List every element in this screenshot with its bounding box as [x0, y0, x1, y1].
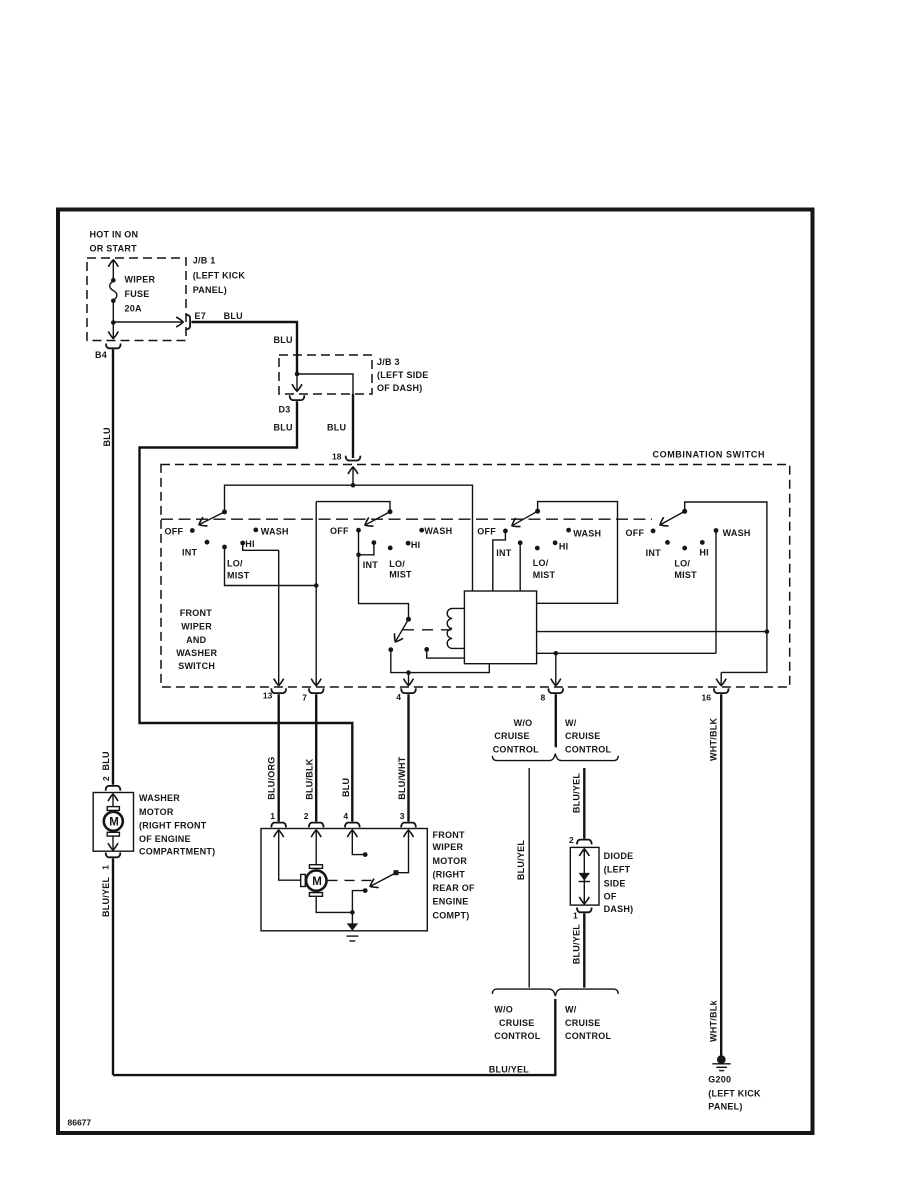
intermittent switch contact [388, 647, 393, 652]
svg-text:SWITCH: SWITCH [178, 661, 215, 671]
svg-text:DIODE: DIODE [604, 851, 634, 861]
svg-text:HI: HI [245, 539, 255, 549]
washer motor M [107, 807, 119, 811]
switch 4 HI contact [700, 540, 705, 545]
connector diode pin 2 [577, 840, 592, 845]
svg-text:CONTROL: CONTROL [565, 744, 611, 754]
svg-text:(LEFT KICK: (LEFT KICK [708, 1089, 761, 1099]
connector E7 [185, 315, 190, 330]
wire hot feed into J/B1 (arrow up) [112, 260, 114, 280]
wire junction to pin 8 (arrow) [555, 653, 557, 686]
wire BLU/YEL diode pin1 down [583, 913, 585, 987]
svg-text:WHT/BLK: WHT/BLK [709, 718, 719, 761]
wire BLU from D3 down-left-down-right to wiper motor pin 4 [140, 401, 353, 821]
diode box [570, 847, 599, 905]
svg-text:FRONT: FRONT [433, 830, 465, 840]
svg-text:INT: INT [363, 560, 379, 570]
node junction OFF/INT [356, 553, 361, 558]
relay auxiliary contact [424, 647, 429, 652]
svg-text:WASH: WASH [261, 527, 289, 537]
wiper pin3 entry arrow [408, 830, 410, 837]
svg-text:INT: INT [496, 548, 512, 558]
wire park contact to ground junction [352, 891, 365, 913]
connector pin 16 [714, 688, 729, 693]
svg-text:4: 4 [343, 811, 348, 821]
ground (wiper motor case) [351, 912, 353, 924]
wire BLU/YEL w/o cruise branch [528, 768, 530, 988]
node fuse output junction [111, 320, 116, 325]
svg-text:W/O: W/O [494, 1005, 513, 1015]
relay box (intermittent wiper relay) [464, 591, 536, 664]
svg-text:(LEFT: (LEFT [604, 865, 631, 875]
svg-text:WHT/BLk: WHT/BLk [709, 1000, 719, 1042]
park switch pivot (square) [394, 870, 399, 875]
switch 2 HI contact [406, 541, 411, 546]
svg-text:OFF: OFF [626, 528, 645, 538]
brace split (top) [492, 754, 618, 761]
connector wiper motor pin 1 [271, 823, 286, 828]
washer motor entry arrow [112, 794, 114, 807]
wire top feed bus [225, 485, 473, 591]
svg-text:8: 8 [541, 692, 546, 702]
svg-text:MIST: MIST [674, 570, 697, 580]
svg-text:LO/: LO/ [674, 559, 690, 569]
svg-text:WASH: WASH [723, 528, 751, 538]
svg-text:CONTROL: CONTROL [494, 1031, 540, 1041]
svg-text:1: 1 [573, 911, 578, 921]
svg-text:COMPT): COMPT) [433, 910, 470, 920]
svg-text:DASH): DASH) [604, 904, 634, 914]
wire switch 3 pivot loop to relay [537, 502, 618, 604]
svg-text:BLU/YEL: BLU/YEL [489, 1065, 530, 1075]
switch 1 lever [199, 512, 225, 525]
washer motor exit arrow [112, 836, 114, 850]
svg-text:CRUISE: CRUISE [565, 731, 601, 741]
svg-text:7: 7 [302, 693, 307, 703]
wire pin2 to motor top brush [315, 836, 317, 865]
wire J/B3 junction right then down toward pin 18 [297, 374, 353, 394]
svg-text:WASH: WASH [573, 529, 601, 539]
wire pin 8 down to cruise split [555, 694, 557, 747]
wire arrow entering at pin 18 [352, 467, 354, 485]
svg-text:HI: HI [411, 540, 421, 550]
junction block J/B 3 (dashed box) [279, 355, 372, 394]
svg-text:(LEFT SIDE: (LEFT SIDE [377, 370, 429, 380]
node feed junction [351, 483, 356, 488]
mechanical link dashed line [161, 518, 652, 520]
wire BLU/ORG pin 13 to wiper motor pin 1 [278, 694, 280, 821]
wiper motor box [261, 829, 427, 931]
mechanical link to coil (dashed) [403, 629, 452, 631]
svg-text:D3: D3 [279, 405, 291, 415]
svg-text:MOTOR: MOTOR [139, 807, 174, 817]
svg-text:MIST: MIST [227, 570, 250, 580]
switch 3 OFF contact [503, 529, 508, 534]
svg-text:WIPER: WIPER [181, 622, 212, 632]
connector pin 7 [309, 688, 324, 693]
wire pin1 to motor left brush [279, 836, 301, 881]
svg-text:13: 13 [263, 691, 273, 701]
svg-text:1: 1 [101, 865, 111, 870]
svg-text:BLU: BLU [274, 423, 293, 433]
switch 2 WASH contact [419, 528, 424, 533]
svg-text:(RIGHT FRONT: (RIGHT FRONT [139, 820, 207, 830]
svg-text:J/B 3: J/B 3 [377, 357, 400, 367]
diode exit arrow [583, 898, 585, 905]
svg-text:FRONT: FRONT [180, 608, 212, 618]
svg-text:WIPER: WIPER [125, 274, 156, 284]
connector D3 [290, 395, 305, 400]
svg-text:B4: B4 [95, 350, 107, 360]
svg-text:BLU/YEL: BLU/YEL [101, 876, 111, 917]
wire contact down to pin 4 junction [391, 650, 409, 673]
washer motor box [93, 793, 133, 852]
svg-text:OFF: OFF [477, 527, 496, 537]
switch 3 pivot [535, 509, 540, 514]
wire auxiliary contact to relay [427, 649, 465, 658]
combination switch (dashed box) [161, 465, 790, 688]
connector diode pin 1 [577, 908, 592, 913]
svg-text:OF ENGINE: OF ENGINE [139, 834, 191, 844]
svg-text:2: 2 [569, 835, 574, 845]
wire relay right to switch4 loop [537, 631, 767, 633]
contact pin4 (open) [363, 852, 368, 857]
connector washer pin 1 [106, 853, 121, 858]
svg-text:MOTOR: MOTOR [433, 856, 468, 866]
connector pin 8 [548, 688, 563, 693]
diode symbol [579, 873, 590, 881]
wire BLU/YEL bottom rail [113, 999, 555, 1075]
wire junction down to B4 (arrow down) [112, 323, 114, 339]
border frame of diagram page [58, 210, 813, 1134]
connector wiper motor pin 4 [345, 823, 360, 828]
svg-text:OF DASH): OF DASH) [377, 383, 423, 393]
switch 3 WASH contact [566, 528, 571, 533]
wire switch 4 pivot loop down to pin 16 (arrow) [685, 502, 767, 672]
svg-text:1: 1 [270, 811, 275, 821]
switch 4 pivot [682, 509, 687, 514]
svg-text:(RIGHT: (RIGHT [433, 869, 466, 879]
svg-text:3: 3 [400, 811, 405, 821]
svg-text:BLU/WHT: BLU/WHT [397, 756, 407, 799]
switch 1 pivot [222, 509, 227, 514]
switch 2 INT contact [372, 540, 377, 545]
relay coil [447, 608, 464, 648]
svg-text:FUSE: FUSE [125, 289, 150, 299]
svg-text:OFF: OFF [165, 527, 184, 537]
svg-text:2: 2 [101, 776, 111, 781]
wire switch 2 pivot loop to pin 7 (arrow) [316, 502, 390, 512]
svg-text:M: M [312, 876, 322, 888]
wire BLU/BLK pin 7 to wiper motor pin 2 [315, 694, 317, 821]
mechanical link motor to park switch (dashed) [328, 879, 376, 881]
switch 4 WASH contact [714, 528, 719, 533]
park switch contact [363, 888, 368, 893]
fuse WIPER 20A [111, 278, 116, 283]
wire motor bottom brush to ground junction [316, 896, 352, 912]
node pin 4 junction [406, 670, 411, 675]
svg-text:INT: INT [646, 548, 662, 558]
svg-text:J/B 1: J/B 1 [193, 255, 216, 265]
svg-text:CONTROL: CONTROL [565, 1031, 611, 1041]
svg-text:4: 4 [396, 692, 401, 702]
svg-text:BLU/YEL: BLU/YEL [572, 773, 582, 814]
switch 2 pivot [388, 509, 393, 514]
svg-text:18: 18 [332, 452, 342, 462]
svg-text:86677: 86677 [68, 1117, 92, 1127]
connector wiper motor pin 3 [401, 823, 416, 828]
switch 1 OFF contact [190, 528, 195, 533]
switch 3 HI contact [553, 540, 558, 545]
svg-text:OF: OF [604, 891, 617, 901]
park switch lever [370, 873, 396, 887]
svg-text:W/: W/ [565, 718, 577, 728]
wire BLU/YEL w/ cruise branch to diode [583, 768, 585, 839]
wire pin4 to open contact [352, 836, 365, 855]
svg-text:AND: AND [186, 635, 206, 645]
svg-text:2: 2 [304, 811, 309, 821]
intermittent switch pivot [406, 617, 411, 622]
switch 4 lever [660, 511, 685, 525]
svg-text:COMBINATION SWITCH: COMBINATION SWITCH [653, 450, 766, 460]
svg-text:CRUISE: CRUISE [565, 1018, 601, 1028]
wiper motor M [309, 865, 322, 869]
svg-text:WIPER: WIPER [433, 842, 464, 852]
wire BLU from E7 right then down to J/B3 [191, 322, 297, 374]
node ground junction [350, 910, 355, 915]
svg-text:BLU: BLU [102, 427, 112, 446]
svg-text:E7: E7 [195, 311, 207, 321]
svg-text:M: M [109, 817, 119, 829]
switch 1 HI contact [240, 541, 245, 546]
connector washer pin 2 [106, 786, 121, 791]
svg-text:OR START: OR START [90, 244, 138, 254]
svg-text:CRUISE: CRUISE [494, 731, 530, 741]
svg-text:BLU: BLU [341, 778, 351, 797]
svg-text:20A: 20A [125, 303, 143, 313]
wire switch2 OFF down to intermittent switch pivot [359, 530, 409, 619]
svg-text:OFF: OFF [330, 526, 349, 536]
node junction on pin7 line [314, 583, 319, 588]
switch 3 LO/MIST contact [535, 546, 540, 551]
svg-text:ENGINE: ENGINE [433, 897, 469, 907]
switch 4 INT contact [665, 540, 670, 545]
svg-text:CRUISE: CRUISE [499, 1018, 535, 1028]
svg-text:MIST: MIST [533, 570, 556, 580]
switch 3 lever [512, 511, 538, 526]
connector 18 [346, 456, 361, 461]
svg-text:PANEL): PANEL) [193, 285, 227, 295]
svg-text:BLU/YEL: BLU/YEL [516, 840, 526, 881]
switch 2 lever [365, 512, 390, 526]
switch 1 LO/MIST contact [222, 545, 227, 550]
svg-text:REAR OF: REAR OF [433, 883, 476, 893]
svg-text:HOT IN ON: HOT IN ON [90, 230, 139, 240]
wire BLU from B4 down to washer motor [112, 349, 114, 785]
svg-text:WASHER: WASHER [139, 793, 180, 803]
wire switch2 INT hook to OFF line [359, 543, 374, 555]
connector wiper motor pin 2 [309, 823, 324, 828]
connector pin 4 [401, 688, 416, 693]
node J/B3 junction [295, 372, 300, 377]
wire junction to E7 (arrow right) [113, 321, 183, 323]
svg-text:HI: HI [559, 542, 569, 552]
wiper pin4 entry arrow [351, 830, 353, 837]
switch 1 INT contact [205, 540, 210, 545]
wire switch3 OFF to relay top [493, 531, 506, 591]
wiper pin1 entry arrow [278, 830, 280, 837]
wire J/B3 junction to D3 (arrow down) [296, 374, 298, 391]
diode inner wire [583, 849, 585, 904]
switch 4 OFF contact [651, 529, 656, 534]
svg-text:WASH: WASH [424, 526, 452, 536]
wire pin3 to park switch pivot [399, 836, 409, 873]
svg-text:SIDE: SIDE [604, 879, 626, 889]
svg-text:LO/: LO/ [389, 559, 405, 569]
svg-text:W/O: W/O [514, 718, 533, 728]
svg-text:BLU: BLU [327, 423, 346, 433]
svg-text:BLU: BLU [224, 311, 243, 321]
switch 1 WASH contact [253, 528, 258, 533]
wire WHT/BLK pin 16 down to G200 [720, 694, 722, 1058]
svg-text:G200: G200 [708, 1075, 731, 1085]
switch 4 LO/MIST contact [682, 546, 687, 551]
svg-text:MIST: MIST [389, 569, 412, 579]
junction block J/B 1 (dashed box) [87, 258, 186, 341]
svg-text:HI: HI [699, 547, 709, 557]
wire switch1 HI to pin 13 (arrow) [243, 543, 279, 550]
wire switch3 INT to relay top [519, 543, 521, 591]
ground G200 [717, 1055, 726, 1064]
wire BLU/YEL washer pin1 to bottom rail [112, 858, 114, 1075]
svg-text:(LEFT KICK: (LEFT KICK [193, 270, 246, 280]
brace merge (bottom) [492, 989, 618, 996]
svg-text:LO/: LO/ [227, 558, 243, 568]
wire switch4 WASH down to relay line [715, 531, 717, 654]
switch 2 LO/MIST contact [388, 546, 393, 551]
wire relay bottom to pin 4 junction [409, 664, 490, 673]
svg-text:BLU/ORG: BLU/ORG [267, 757, 277, 800]
wire BLU down to connector 18 [352, 394, 354, 458]
svg-text:WASHER: WASHER [176, 648, 217, 658]
svg-text:W/: W/ [565, 1005, 577, 1015]
connector B4 [106, 344, 121, 349]
wire BLU/WHT pin 4 to wiper motor pin 3 [407, 694, 409, 821]
svg-text:INT: INT [182, 548, 198, 558]
svg-text:BLU/BLK: BLU/BLK [305, 758, 315, 799]
diode entry arrow [583, 849, 585, 857]
svg-text:COMPARTMENT): COMPARTMENT) [139, 846, 215, 856]
svg-text:BLU: BLU [274, 335, 293, 345]
switch 3 INT contact [518, 540, 523, 545]
svg-text:BLU/YEL: BLU/YEL [572, 924, 582, 965]
svg-text:CONTROL: CONTROL [493, 744, 539, 754]
wiper pin2 entry arrow [315, 830, 317, 837]
svg-text:LO/: LO/ [533, 558, 549, 568]
wire relay right to switch4 WASH line [537, 652, 716, 654]
wire switch1 LO/MIST to pin7 line [225, 547, 317, 586]
wire fuse to junction [112, 301, 114, 323]
node pin 8 junction [554, 651, 559, 656]
svg-text:16: 16 [702, 692, 712, 702]
svg-text:BLU: BLU [101, 751, 111, 770]
intermittent switch lever [395, 619, 408, 642]
switch 2 OFF contact [356, 528, 361, 533]
wire junction to pin 4 (arrow) [408, 673, 410, 686]
connector pin 13 [271, 688, 286, 693]
node junction on switch4 loop [765, 629, 770, 634]
svg-text:PANEL): PANEL) [708, 1102, 742, 1112]
